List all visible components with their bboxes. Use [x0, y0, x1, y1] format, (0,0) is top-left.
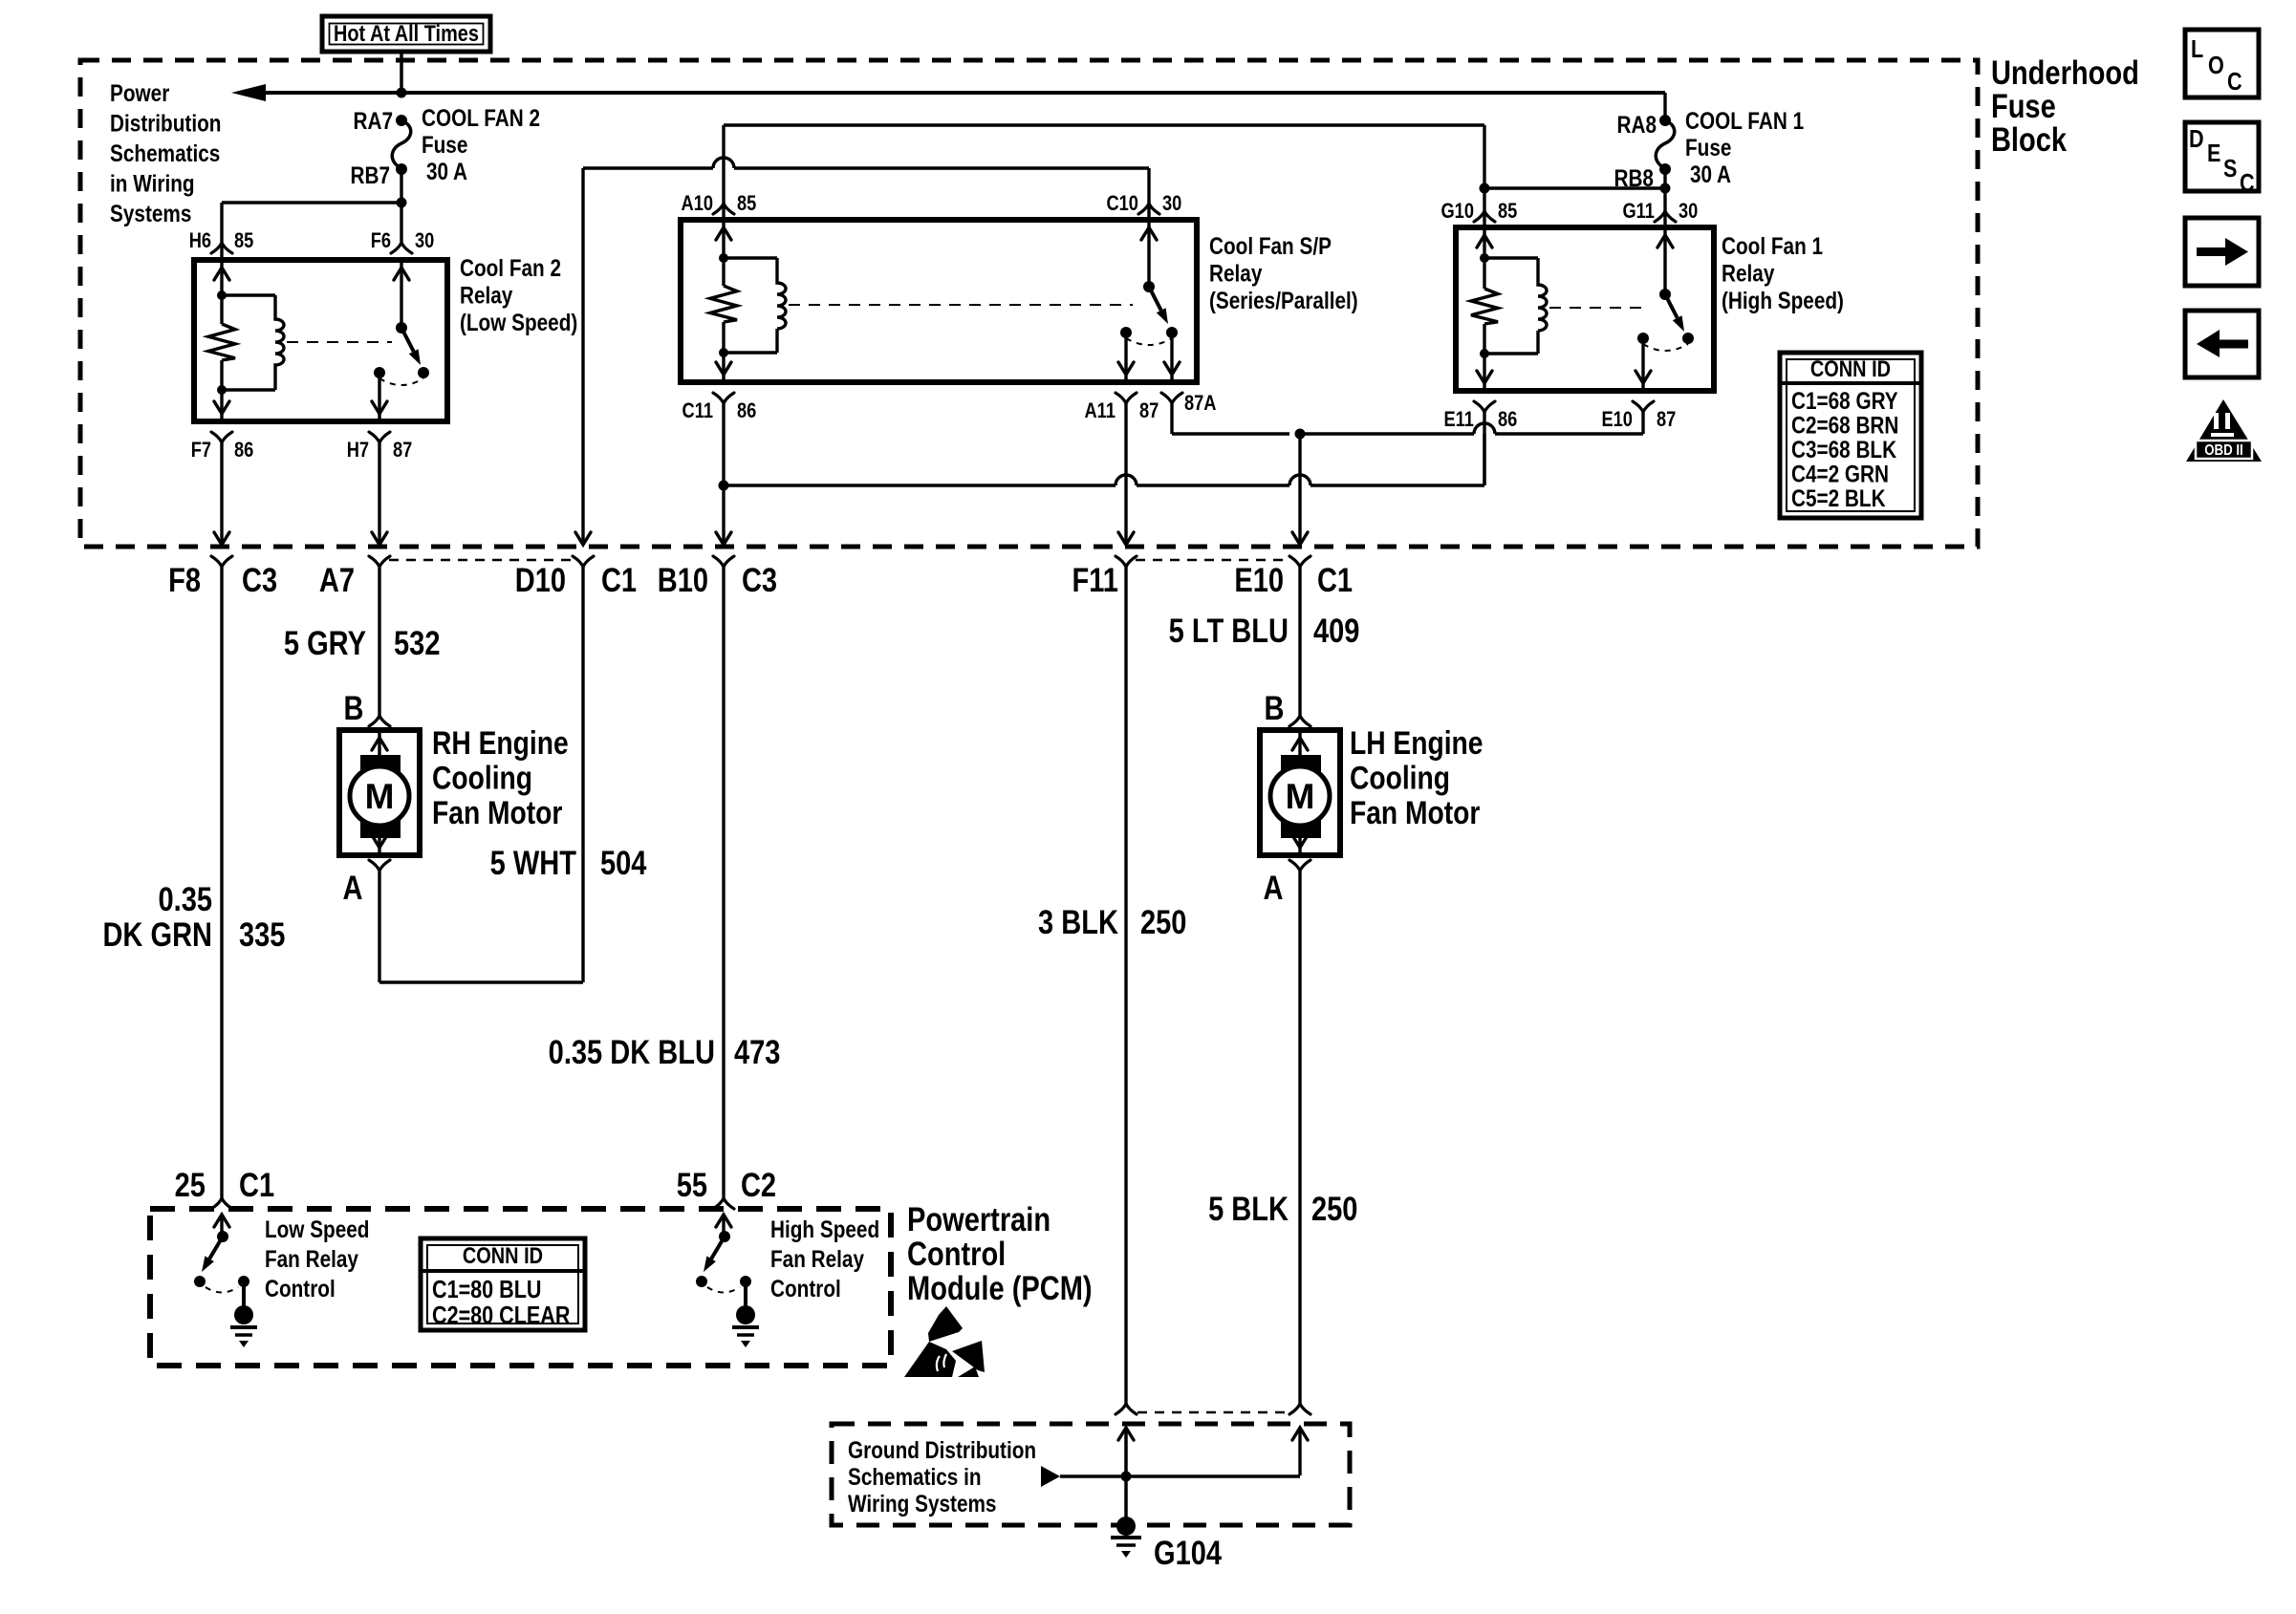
svg-text:250: 250	[1140, 903, 1186, 940]
svg-text:(Series/Parallel): (Series/Parallel)	[1209, 287, 1358, 313]
svg-text:A: A	[343, 869, 363, 906]
pin F7 86 of relay K1	[214, 401, 229, 414]
svg-text:87: 87	[1657, 409, 1676, 432]
relay K2 Cool Fan S/P Relay (Series/Parallel)	[681, 220, 1197, 382]
wire: relay K1 87 down to fuse-block edge	[378, 442, 380, 545]
svg-text:C2: C2	[741, 1166, 776, 1203]
svg-text:C: C	[2227, 68, 2242, 96]
svg-text:Fuse: Fuse	[422, 131, 467, 158]
svg-text:E10: E10	[1602, 409, 1633, 432]
svg-text:Fan Motor: Fan Motor	[1350, 795, 1480, 831]
wire 504: 5 WHT from RH fan motor A to D10	[581, 567, 584, 982]
svg-text:C11: C11	[682, 400, 713, 423]
svg-text:RA7: RA7	[354, 107, 394, 134]
pin F6 30 of relay K1	[391, 243, 412, 253]
svg-text:335: 335	[239, 915, 285, 953]
switch of relay K1	[396, 322, 407, 334]
relay K1 coil	[217, 291, 227, 300]
wire: fuse RB7 output down to branch	[400, 169, 402, 243]
svg-text:M: M	[1286, 777, 1315, 816]
node F8 C3	[211, 556, 232, 567]
svg-text:F11: F11	[1072, 561, 1118, 598]
svg-text:A10: A10	[682, 193, 713, 216]
relay K2 coil	[719, 253, 728, 263]
legend icon LOC	[2185, 30, 2259, 97]
svg-text:87: 87	[1139, 400, 1159, 423]
svg-text:Cool Fan 2: Cool Fan 2	[460, 254, 561, 281]
ground inside PCM (high speed)	[744, 1281, 747, 1308]
svg-text:Powertrain: Powertrain	[907, 1200, 1051, 1237]
svg-text:Fan Relay: Fan Relay	[770, 1245, 864, 1272]
wire: relay K3 86 down to coil ground bus	[1483, 412, 1485, 423]
svg-text:Cooling: Cooling	[432, 760, 532, 796]
svg-text:C1: C1	[601, 561, 637, 598]
svg-text:(High Speed): (High Speed)	[1722, 287, 1844, 313]
svg-text:B: B	[344, 689, 364, 726]
thin dashed connector link at ground box	[1137, 1411, 1289, 1414]
svg-text:S: S	[2223, 155, 2237, 183]
svg-text:85: 85	[737, 193, 756, 216]
CONN ID table (fuse block)	[1780, 353, 1921, 518]
svg-text:Relay: Relay	[460, 282, 513, 309]
pin C11 86 of relay K2	[716, 362, 731, 375]
pin A11 87 of relay K2	[1118, 362, 1134, 375]
node E10 C1	[1289, 556, 1310, 567]
wire: relay K2 87 down to F11	[1124, 403, 1127, 545]
svg-text:Fan Motor: Fan Motor	[432, 795, 562, 831]
PCM low speed fan relay driver	[214, 1215, 229, 1227]
relay K1 Cool Fan 2 Relay (Low Speed)	[194, 260, 447, 421]
wire: relay K2 86 down, joins coil-ground bus	[722, 403, 725, 545]
svg-text:Control: Control	[907, 1235, 1006, 1272]
svg-text:532: 532	[394, 624, 440, 661]
node: fuse output junctions	[1660, 183, 1671, 194]
relay K3 coil	[1480, 253, 1489, 263]
svg-text:High Speed: High Speed	[770, 1216, 879, 1242]
wire: battery bus line with left arrow	[231, 84, 266, 101]
svg-text:A11: A11	[1085, 400, 1116, 423]
svg-text:0.35 DK BLU: 0.35 DK BLU	[549, 1033, 715, 1070]
svg-text:Relay: Relay	[1722, 260, 1775, 287]
svg-text:C4=2 GRN: C4=2 GRN	[1791, 461, 1889, 487]
svg-text:A7: A7	[319, 561, 355, 598]
svg-text:473: 473	[734, 1033, 780, 1070]
svg-text:C1=80 BLU: C1=80 BLU	[432, 1276, 541, 1303]
ground G104	[1116, 1517, 1136, 1536]
svg-text:5 LT BLU: 5 LT BLU	[1169, 612, 1289, 649]
pin H6 85 of relay K1	[211, 243, 232, 253]
switch of relay K2	[1143, 281, 1155, 292]
svg-text:C2=80 CLEAR: C2=80 CLEAR	[432, 1302, 570, 1329]
svg-text:5 BLK: 5 BLK	[1208, 1190, 1289, 1227]
wire: relay K2 87A across to relay K3 87 (y454)	[1170, 403, 1173, 434]
svg-text:Power: Power	[110, 79, 169, 106]
svg-text:C: C	[2240, 169, 2255, 197]
wire 532: 5 GRY from A7 to RH fan motor B	[378, 567, 380, 716]
svg-text:H6: H6	[189, 230, 211, 253]
svg-text:F8: F8	[168, 561, 201, 598]
wire: 5 WHT upper run D10 to relay K2 pin 30	[583, 166, 713, 169]
svg-text:C3=68 BLK: C3=68 BLK	[1791, 436, 1896, 463]
svg-text:Cool Fan 1: Cool Fan 1	[1722, 232, 1823, 259]
pin G10 85 of relay K3	[1474, 211, 1495, 222]
svg-text:Cooling: Cooling	[1350, 760, 1450, 796]
svg-text:5 GRY: 5 GRY	[284, 624, 366, 661]
node A7	[369, 556, 390, 567]
svg-text:E10: E10	[1234, 561, 1284, 598]
svg-text:Cool Fan S/P: Cool Fan S/P	[1209, 232, 1332, 259]
pin A10 85 of relay K2	[713, 204, 734, 214]
svg-text:Low Speed: Low Speed	[265, 1216, 370, 1242]
svg-text:87: 87	[393, 440, 412, 463]
ground inside PCM (low speed)	[242, 1281, 246, 1308]
svg-text:409: 409	[1313, 612, 1359, 649]
pin 87A of relay K2	[1164, 362, 1180, 375]
svg-text:CONN ID: CONN ID	[1810, 355, 1891, 381]
node: bus junction at Hot feed	[397, 88, 407, 98]
svg-text:B: B	[1264, 689, 1284, 726]
svg-text:Schematics in: Schematics in	[848, 1463, 982, 1490]
hop over relay K2 85 wire	[713, 158, 734, 168]
svg-text:Wiring Systems: Wiring Systems	[848, 1490, 996, 1517]
svg-text:C2=68 BRN: C2=68 BRN	[1791, 412, 1898, 439]
svg-text:(Low Speed): (Low Speed)	[460, 309, 577, 335]
wire: Hot At All Times feed down to bus	[400, 52, 403, 93]
svg-text:Control: Control	[265, 1275, 336, 1302]
pin G11 30 of relay K3	[1655, 211, 1676, 222]
pin H7 87 of relay K1	[372, 401, 387, 414]
svg-text:C3: C3	[242, 561, 277, 598]
svg-text:30 A: 30 A	[1690, 161, 1731, 187]
fuse F1 COOL FAN 2 Fuse 30A	[396, 115, 407, 126]
svg-text:C3: C3	[742, 561, 777, 598]
svg-text:30: 30	[1162, 193, 1181, 216]
relay K3 Cool Fan 1 Relay (High Speed)	[1456, 227, 1714, 391]
svg-text:Module (PCM): Module (PCM)	[907, 1269, 1093, 1306]
svg-text:D10: D10	[515, 561, 566, 598]
wire: branch left to pin 85 of relay K1	[222, 201, 401, 204]
svg-text:55: 55	[677, 1166, 707, 1203]
fuse F2 COOL FAN 1 Fuse 30A	[1659, 115, 1671, 126]
node B10 C3	[713, 556, 734, 567]
wire: coil feed bus to relays K2 and K3 (y131)	[724, 123, 1484, 126]
wire: ground bus inside box	[1041, 1466, 1060, 1487]
wire: RB8 down to relay K3 pin 30	[1663, 169, 1666, 227]
svg-text:G104: G104	[1154, 1534, 1222, 1571]
svg-text:C10: C10	[1106, 193, 1137, 216]
svg-text:F6: F6	[371, 230, 391, 253]
svg-text:Fuse: Fuse	[1685, 134, 1731, 161]
svg-text:5 WHT: 5 WHT	[490, 844, 577, 881]
dashed link coil to switch K2	[789, 304, 1133, 306]
svg-text:E: E	[2207, 140, 2220, 167]
legend icon back arrow	[2185, 311, 2259, 377]
switch of relay K3	[1659, 289, 1671, 300]
svg-text:Fan Relay: Fan Relay	[265, 1245, 358, 1272]
wire: COOL FAN 1 feed from bus	[1663, 93, 1666, 120]
thin dashed connector link F11-E10	[1136, 559, 1290, 562]
svg-text:0.35: 0.35	[158, 880, 212, 917]
connector forks above ground box	[1116, 1404, 1137, 1414]
legend icon DESC	[2185, 122, 2259, 191]
svg-text:85: 85	[1498, 201, 1517, 224]
svg-text:G11: G11	[1622, 201, 1654, 224]
svg-text:Control: Control	[770, 1275, 841, 1302]
pin C10 30 of relay K2	[1138, 204, 1159, 214]
svg-text:85: 85	[234, 230, 253, 253]
svg-text:D: D	[2189, 125, 2204, 153]
svg-text:Block: Block	[1991, 120, 2067, 158]
svg-text:30: 30	[415, 230, 434, 253]
legend icon forward arrow	[2185, 218, 2259, 286]
svg-text:504: 504	[600, 844, 647, 881]
svg-text:C1=68 GRY: C1=68 GRY	[1791, 387, 1898, 414]
Hot At All Times box	[322, 16, 490, 52]
svg-text:Relay: Relay	[1209, 260, 1263, 287]
dashed link coil to switch K1	[287, 341, 392, 343]
Powertrain Control Module PCM dashed box	[150, 1209, 891, 1366]
wire: coil ground bus y508 to relay K3 86	[724, 484, 1116, 486]
PCM high speed fan relay driver	[716, 1215, 731, 1227]
svg-text:G10: G10	[1440, 201, 1473, 224]
svg-text:Distribution: Distribution	[110, 110, 221, 137]
arrows into fuse-block bottom edge	[214, 532, 229, 545]
svg-text:86: 86	[234, 440, 253, 463]
pin E11 86 of relay K3	[1477, 371, 1492, 383]
svg-text:250: 250	[1311, 1190, 1357, 1227]
svg-text:COOL FAN 1: COOL FAN 1	[1685, 107, 1804, 134]
svg-text:30 A: 30 A	[426, 158, 467, 184]
svg-text:COOL FAN 2: COOL FAN 2	[422, 104, 540, 131]
svg-text:C5=2 BLK: C5=2 BLK	[1791, 484, 1886, 511]
svg-text:RH Engine: RH Engine	[432, 725, 569, 762]
svg-text:3 BLK: 3 BLK	[1038, 903, 1118, 940]
svg-text:RB7: RB7	[351, 161, 391, 188]
svg-text:L: L	[2191, 35, 2203, 63]
pin E10 87 of relay K3	[1635, 371, 1651, 383]
node F11	[1116, 556, 1137, 567]
svg-text:Hot At All Times: Hot At All Times	[334, 20, 479, 46]
wire: relay K1 86 down to fuse-block edge	[220, 442, 223, 545]
svg-text:Underhood: Underhood	[1991, 54, 2139, 91]
wire 473: 0.35 DK BLU from B10 to PCM pin 55	[722, 567, 725, 1198]
svg-text:DK GRN: DK GRN	[102, 915, 212, 953]
svg-text:LH Engine: LH Engine	[1350, 725, 1483, 762]
svg-text:C1: C1	[1317, 561, 1353, 598]
node D10 C1	[573, 556, 594, 567]
wire 250: 5 BLK from LH fan motor A to ground	[1298, 871, 1301, 1404]
svg-text:F7: F7	[191, 440, 211, 463]
svg-text:O: O	[2208, 52, 2224, 79]
svg-text:86: 86	[737, 400, 756, 423]
dashed link coil to switch K3	[1549, 307, 1649, 309]
svg-text:CONN ID: CONN ID	[463, 1242, 543, 1268]
wire 250: 3 BLK from F11 to ground	[1124, 567, 1127, 1404]
svg-text:M: M	[365, 777, 395, 816]
CONN ID table (PCM)	[421, 1238, 585, 1330]
svg-text:RA8: RA8	[1617, 111, 1657, 138]
legend icon OBD II triangle	[2186, 399, 2262, 462]
svg-text:Systems: Systems	[110, 200, 191, 226]
ESD sensitive device symbol	[928, 1306, 963, 1342]
wire: E10 C1 branch down from y454	[1298, 434, 1301, 545]
thin dashed connector link A7-D10	[389, 559, 574, 562]
svg-text:in Wiring: in Wiring	[110, 170, 195, 197]
svg-text:Schematics: Schematics	[110, 140, 220, 166]
svg-text:OBD II: OBD II	[2204, 442, 2243, 459]
Underhood Fuse Block dashed boundary box	[80, 60, 1978, 547]
svg-text:25: 25	[175, 1166, 206, 1203]
svg-text:Ground Distribution: Ground Distribution	[848, 1436, 1036, 1463]
svg-text:B10: B10	[658, 561, 708, 598]
svg-text:C1: C1	[239, 1166, 274, 1203]
svg-text:H7: H7	[347, 440, 369, 463]
node: branch to relay K1 coil	[397, 198, 407, 208]
svg-text:E11: E11	[1444, 409, 1474, 432]
svg-text:Fuse: Fuse	[1991, 87, 2056, 124]
svg-text:86: 86	[1498, 409, 1517, 432]
Ground Distribution dashed box	[832, 1424, 1350, 1525]
ground wires into box	[1118, 1428, 1134, 1440]
svg-text:A: A	[1263, 869, 1283, 906]
svg-text:87A: 87A	[1184, 393, 1217, 416]
wire 335: 0.35 DK GRN from F8 to PCM pin 25	[220, 567, 223, 1198]
wire 409: 5 LT BLU from E10 to LH fan motor B	[1298, 567, 1301, 716]
svg-text:30: 30	[1679, 201, 1698, 224]
